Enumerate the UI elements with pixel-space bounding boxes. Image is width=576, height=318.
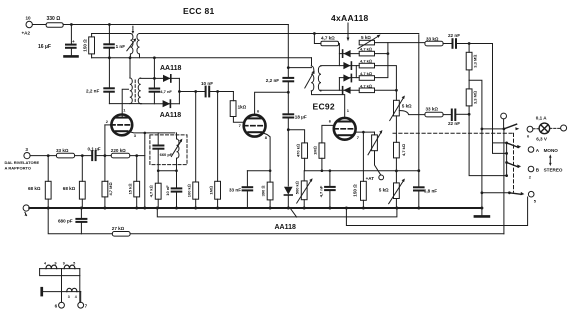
tank top edge wire y33.5	[92, 33, 131, 35]
switch S4	[508, 191, 511, 194]
wire B+ node to T3 primary top	[288, 67, 311, 69]
capacitor 16 uF electrolytic	[66, 45, 76, 48]
rail y170.7	[305, 170, 419, 172]
discriminator row2 wire y103.7	[140, 103, 179, 105]
svg-text:A RAPPORTO: A RAPPORTO	[5, 166, 31, 171]
capacitor 4,7 nF	[150, 89, 160, 92]
svg-text:2: 2	[106, 119, 109, 124]
T3 primary bottom to EC92 plate	[312, 91, 345, 117]
svg-text:+AT: +AT	[366, 176, 375, 181]
svg-text:16 µF: 16 µF	[38, 44, 51, 50]
resistor 1 Mohm (EC92 grid leak)	[319, 143, 325, 158]
svg-text:1: 1	[123, 108, 126, 113]
rheostat (EC92 cathode, to +AT)	[374, 132, 376, 135]
svg-text:10 nF: 10 nF	[165, 185, 170, 196]
terminal 4	[23, 205, 29, 211]
svg-text:18 µF: 18 µF	[295, 114, 307, 119]
svg-text:4,7 kΩ: 4,7 kΩ	[360, 83, 372, 88]
svg-text:100 kΩ: 100 kΩ	[186, 184, 191, 197]
svg-text:10 nF: 10 nF	[201, 81, 213, 86]
terminal B	[528, 166, 534, 172]
stub y153.4	[493, 143, 506, 154]
T3 core adjust arrow	[305, 73, 314, 89]
resistor 4,7 kohm (R2)	[359, 51, 374, 56]
terminal A	[528, 147, 534, 153]
tube1 grid lead	[105, 124, 112, 126]
svg-text:2: 2	[529, 175, 532, 180]
svg-text:33 nF: 33 nF	[229, 188, 241, 193]
transformer T3 primary winding	[311, 66, 314, 91]
resistor 68 kohm (second)	[81, 156, 83, 182]
mono/stereo double arrow	[549, 157, 551, 164]
heater EC92 (pins 3-4)	[43, 291, 80, 293]
resistor 4,7 kohm (R5)	[359, 88, 374, 93]
svg-text:5: 5	[73, 262, 75, 266]
resistor 4,7 kohm (tube1 cathode)	[157, 171, 159, 184]
transformer T2 primary winding	[130, 78, 132, 104]
svg-text:33 kΩ: 33 kΩ	[426, 107, 439, 112]
resistor 4,7 kohm (R3)	[359, 63, 374, 68]
svg-text:5 kΩ: 5 kΩ	[379, 188, 389, 193]
svg-text:EC92: EC92	[313, 102, 335, 112]
pilot lamp 0,1A 6,3V	[539, 123, 550, 134]
resistor 68 kohm (first)	[47, 156, 49, 182]
svg-text:9: 9	[63, 262, 65, 266]
svg-text:8: 8	[265, 135, 268, 140]
diode AA118 bottom	[163, 100, 171, 107]
capacitor 33 nF (tube2 cathode bypass)	[247, 170, 270, 172]
svg-text:1MΩ: 1MΩ	[313, 146, 318, 155]
pot2 wiper to row B	[399, 111, 425, 115]
row A: capacitor 22 nF	[453, 39, 457, 48]
switch S1 (heater/pilot)	[503, 127, 506, 130]
wire feed to diode chain rail	[338, 44, 341, 66]
row B: capacitor 22 nF	[452, 110, 456, 121]
ground (16uF)	[65, 55, 78, 58]
transformer T3 secondary winding	[318, 66, 321, 91]
variable inductor (in dashed box)	[176, 133, 178, 139]
wire pot right + output row A	[375, 42, 425, 44]
svg-text:4: 4	[75, 295, 77, 299]
svg-text:27 kΩ: 27 kΩ	[112, 226, 125, 231]
wire x154.4 down through 4.7nF	[153, 58, 155, 88]
svg-text:0,1 µF: 0,1 µF	[88, 147, 101, 152]
tube1 cathode bar	[116, 130, 128, 132]
svg-text:4,7 nF: 4,7 nF	[318, 185, 323, 197]
heater terminal 6	[59, 302, 65, 308]
resistor 27 kohm	[112, 232, 130, 237]
AA118 label leader	[290, 208, 297, 218]
resistor 150 ohm (EC92 cathode)	[361, 181, 367, 200]
detector output wire y91.5	[179, 91, 205, 93]
potentiometer 500 kohm	[303, 171, 305, 181]
svg-text:390 Ω: 390 Ω	[261, 186, 266, 197]
svg-text:6: 6	[329, 119, 332, 124]
cathode drop x144.8 to bus	[144, 133, 146, 208]
wire to lamp	[533, 128, 539, 130]
svg-text:4,7 kΩ: 4,7 kΩ	[401, 144, 406, 156]
resistor 4,7 Mohm	[104, 156, 106, 182]
svg-text:4,7 kΩ: 4,7 kΩ	[149, 185, 154, 197]
svg-text:15 kΩ: 15 kΩ	[127, 184, 132, 195]
tube2 cathode lead	[261, 132, 270, 182]
svg-text:33 kΩ: 33 kΩ	[426, 36, 439, 41]
capacitor 1 nF	[104, 44, 114, 47]
heater ECC81 (pins 4-9-5)	[40, 268, 80, 270]
row A: resistor 33 kohm	[425, 41, 443, 46]
row nodes	[47, 154, 50, 157]
discriminator row3 y78	[339, 77, 359, 79]
svg-text:4,7 MΩ: 4,7 MΩ	[108, 182, 113, 195]
svg-text:0,1 A: 0,1 A	[536, 115, 547, 120]
terminal 6	[527, 126, 533, 132]
resistor 220 kohm	[111, 153, 130, 158]
discriminator right rail	[178, 78, 180, 103]
resistor 3,3 Mohm (upper)	[468, 44, 470, 53]
node 288.3,67.6	[287, 66, 290, 69]
diode D3 AA118	[343, 74, 350, 81]
svg-text:22 nF: 22 nF	[448, 121, 460, 126]
tube1 plate bar	[115, 117, 127, 119]
potentiometer 5 kohm (second)	[394, 100, 400, 116]
svg-text:4xAA118: 4xAA118	[331, 13, 369, 23]
svg-text:7: 7	[357, 135, 360, 140]
T2 primary tap to tube1 plate	[122, 89, 128, 117]
node 288.3,92.3	[287, 91, 290, 94]
transformer T1 secondary winding	[137, 34, 140, 58]
bottom return line y233.8	[48, 208, 112, 234]
svg-text:2,2 nF: 2,2 nF	[86, 88, 99, 93]
diode AA118 (AM suppression, vertical)	[284, 187, 293, 195]
long wire y57.8 tank bottom to T3	[92, 57, 312, 59]
resistor 4,7 kohm (EC92 plate load)	[394, 142, 400, 158]
wire 1nF down	[108, 48, 110, 58]
return line A y216.9	[157, 208, 397, 217]
capacitor 18 uF	[283, 114, 293, 117]
wire term3 to 33k	[30, 155, 56, 157]
node row A 469.1	[468, 42, 471, 45]
svg-text:3,3 MΩ: 3,3 MΩ	[472, 55, 477, 68]
wire 1k to tube2 grid	[233, 117, 244, 123]
svg-text:6,3 V: 6,3 V	[536, 137, 548, 142]
diode D2 AA118	[343, 62, 350, 69]
capacitor 2,2 nF (second)	[283, 78, 293, 81]
svg-text:STEREO: STEREO	[544, 168, 563, 173]
tube3 plate bar	[338, 121, 352, 123]
wire lamp to terminal	[550, 127, 561, 129]
wire bottom edge y103.6 to diode right rail	[109, 103, 141, 105]
terminal +AT	[379, 175, 384, 180]
wire down to 16uF	[70, 25, 72, 45]
T2 core dashes	[134, 80, 136, 102]
svg-text:330 Ω: 330 Ω	[47, 16, 61, 22]
node tank bottom x109	[108, 56, 111, 59]
cathode drop x363.4	[362, 132, 364, 181]
resistor 33 kohm (input)	[56, 153, 74, 158]
capacitor 0,1 uF	[92, 151, 95, 160]
dashed box (19kHz filter unit)	[150, 135, 187, 165]
switch S4 feed	[482, 192, 510, 194]
svg-text:68 kΩ: 68 kΩ	[28, 186, 41, 191]
switch feed wire y128.9	[482, 128, 504, 130]
terminal 5	[528, 191, 534, 197]
capacitor 680 pF	[80, 208, 82, 219]
tube2 grid dashes	[244, 125, 266, 127]
svg-text:3: 3	[25, 147, 28, 152]
svg-text:3,3 MΩ: 3,3 MΩ	[472, 91, 477, 104]
resistor 150 ohm (vertical)	[91, 34, 93, 37]
diode AA118 top	[163, 75, 171, 82]
tube2 plate bar	[248, 117, 262, 119]
4xAA118 pointer arrow	[347, 23, 349, 39]
svg-text:150 Ω: 150 Ω	[353, 184, 358, 197]
capacitor 10 nF (detector)	[206, 87, 210, 97]
tube3 cathode bar	[338, 134, 351, 136]
bus junction dots	[47, 207, 50, 210]
svg-text:1 nF: 1 nF	[116, 44, 126, 49]
svg-text:6: 6	[257, 109, 260, 114]
discriminator row2 y65.6 (from T3 secondary top)	[321, 65, 360, 67]
node 288.3,129.7	[287, 128, 290, 131]
svg-text:660 pF: 660 pF	[160, 152, 173, 157]
wire pot2 down	[395, 116, 397, 142]
resistor 100 kohm	[195, 92, 197, 183]
capacitor 6,8 nF	[414, 187, 424, 190]
svg-text:4,7 nF: 4,7 nF	[160, 89, 172, 94]
svg-text:4,7 kΩ: 4,7 kΩ	[321, 36, 335, 41]
ground (main bus)	[481, 208, 483, 215]
right tie rail x387.9	[375, 43, 388, 78]
svg-text:500 kΩ: 500 kΩ	[295, 181, 300, 194]
triode V2 EC92 (tube 3)	[334, 118, 356, 140]
heater terminal 7	[78, 302, 84, 308]
resistor 330 ohm	[46, 23, 63, 28]
potentiometer 5 kohm (top)	[359, 40, 374, 45]
capacitor 4,7 nF (channel)	[329, 171, 331, 187]
right tie rail x396.4	[375, 66, 397, 101]
resistor 3,3 Mohm (lower)	[468, 80, 470, 89]
node 217.6 on output	[216, 90, 219, 93]
diode D4 AA118	[343, 87, 350, 94]
discriminator row1 y53.6	[339, 53, 359, 55]
svg-text:68 kΩ: 68 kΩ	[63, 186, 76, 191]
node junction 154.4,57.8	[153, 56, 156, 59]
svg-text:DAL RIVELATORE: DAL RIVELATORE	[5, 160, 40, 165]
svg-text:5 kΩ: 5 kΩ	[402, 103, 412, 108]
heater loop	[40, 269, 80, 276]
T1 core adjust dashed screw	[132, 26, 134, 32]
switch S3 (B / STEREO)	[505, 161, 508, 164]
B+ column x288.3 top segment	[287, 25, 289, 78]
capacitor 10 nF (cathode bypass)	[176, 171, 178, 188]
T2 primary top lead	[129, 58, 131, 78]
long vertical x418.8	[418, 35, 420, 187]
svg-text:6: 6	[527, 133, 530, 138]
svg-text:2,2 nF: 2,2 nF	[266, 78, 279, 83]
long wire y33.5 T1 secondary top to right corner	[139, 33, 419, 35]
terminal 10 (+A2 input)	[26, 21, 32, 27]
T1 core adjust arrow	[127, 40, 135, 51]
svg-text:680 pF: 680 pF	[58, 219, 73, 224]
svg-text:9: 9	[55, 262, 57, 266]
triode V1b ECC81 (tube 2)	[244, 115, 266, 137]
wire 16uF to ground	[70, 48, 72, 56]
right heater terminal	[561, 125, 567, 131]
ganged switch dashed linkage	[393, 132, 514, 134]
terminal 3 (input from ratio detector)	[24, 153, 30, 159]
svg-text:4: 4	[44, 262, 46, 266]
svg-text:150 Ω: 150 Ω	[82, 39, 87, 52]
resistor 1 kohm	[230, 101, 236, 117]
tie wire y170.7	[158, 170, 176, 172]
wire drop from y33.5 line to feed resistor	[314, 34, 321, 44]
svg-text:1: 1	[347, 108, 350, 113]
svg-text:4,7 kΩ: 4,7 kΩ	[360, 47, 372, 52]
wire B+ top: 330ohm to corner x288	[63, 24, 288, 26]
svg-text:MONO: MONO	[544, 148, 559, 153]
switch S2 (A / MONO)	[505, 142, 508, 145]
svg-text:4,7 kΩ: 4,7 kΩ	[360, 71, 372, 76]
svg-text:+A2: +A2	[22, 31, 31, 36]
svg-text:470 kΩ: 470 kΩ	[295, 144, 300, 157]
svg-text:AA118: AA118	[275, 224, 297, 231]
svg-text:7: 7	[239, 123, 242, 128]
mid tap wire to x481.9	[469, 80, 482, 208]
svg-text:220 kΩ: 220 kΩ	[111, 148, 126, 153]
tube3 cathode lead	[351, 132, 374, 135]
node junction at 71,25	[70, 23, 73, 26]
tube3 grid dashes	[334, 128, 356, 130]
line B y225.5 to terminal 5	[346, 197, 527, 226]
svg-text:AA118: AA118	[160, 65, 182, 72]
tube1 grid dashes	[111, 124, 132, 126]
node 195.7 crossing	[194, 90, 197, 93]
discriminator row4 y90.3 (to T3 secondary bottom)	[321, 89, 360, 91]
svg-text:5: 5	[534, 198, 537, 203]
wire vertical x109 from B+ through tank	[108, 25, 110, 44]
resistor 1 Mohm (grid leak)	[217, 92, 219, 182]
wire 2.2nF to lower edge	[108, 92, 110, 104]
resistor 470 kohm (EC92 grid)	[288, 130, 304, 143]
pot 5k wiper arrow	[358, 36, 379, 49]
capacitor 2,2 nF (first)	[104, 88, 114, 91]
wire row A vertical x492.5	[493, 44, 506, 143]
chassis ground bar	[40, 287, 43, 297]
row B: resistor 33 kohm	[425, 112, 443, 117]
svg-text:3: 3	[134, 133, 137, 138]
svg-text:1kΩ: 1kΩ	[238, 104, 247, 109]
tube1 grid column	[104, 125, 106, 156]
svg-text:A: A	[536, 148, 540, 153]
svg-text:22 nF: 22 nF	[448, 33, 460, 38]
resistor 4,7 kohm feed	[321, 41, 339, 46]
transformer T1 primary winding	[130, 34, 133, 58]
wire down to 1k grid stopper	[232, 92, 234, 101]
tube2 plate lead up and to B+ column	[255, 92, 289, 115]
resistor 4,7 kohm (R4)	[359, 76, 374, 81]
transformer T2 secondary winding	[138, 78, 140, 104]
svg-text:1MΩ: 1MΩ	[208, 186, 213, 195]
triode V1a ECC81 (tube 1)	[111, 115, 132, 136]
potentiometer 5 kohm (third, lower)	[395, 171, 397, 183]
svg-text:B: B	[536, 167, 540, 172]
switch S1 upper terminal	[501, 113, 507, 119]
discriminator row1 wire y78.4	[140, 77, 179, 79]
svg-text:6: 6	[55, 304, 58, 309]
svg-text:7: 7	[85, 304, 88, 309]
resistor 390 ohm (tube2 cathode)	[267, 182, 273, 200]
svg-text:10: 10	[26, 16, 32, 21]
diode D1 AA118	[343, 50, 350, 57]
diode chain left rail lower segment	[338, 78, 340, 91]
svg-text:33 kΩ: 33 kΩ	[56, 148, 69, 153]
wire switch pivot chain to bottom return	[503, 129, 505, 234]
resistor 15 kohm	[136, 156, 138, 182]
svg-text:4,7 kΩ: 4,7 kΩ	[360, 59, 372, 64]
wire x109 down to 2.2nF	[108, 58, 110, 88]
stereo feed column x469.1 down	[469, 114, 507, 175]
tube2 cathode bar	[248, 131, 261, 133]
svg-text:6,8 nF: 6,8 nF	[424, 189, 437, 194]
svg-text:AA118: AA118	[160, 112, 182, 119]
capacitor 660 pF	[157, 133, 159, 145]
svg-text:5 kΩ: 5 kΩ	[361, 35, 371, 40]
svg-text:3: 3	[68, 295, 70, 299]
tube1 cathode lead	[128, 131, 175, 133]
svg-text:ECC 81: ECC 81	[183, 6, 215, 16]
svg-text:+: +	[72, 39, 75, 44]
node 314.4,33.5	[313, 32, 316, 35]
MAIN BUS	[29, 207, 482, 209]
diode chain right rail	[355, 66, 357, 78]
wire terminal10 to R 330	[32, 24, 46, 26]
tube3 grid lead	[322, 125, 334, 142]
